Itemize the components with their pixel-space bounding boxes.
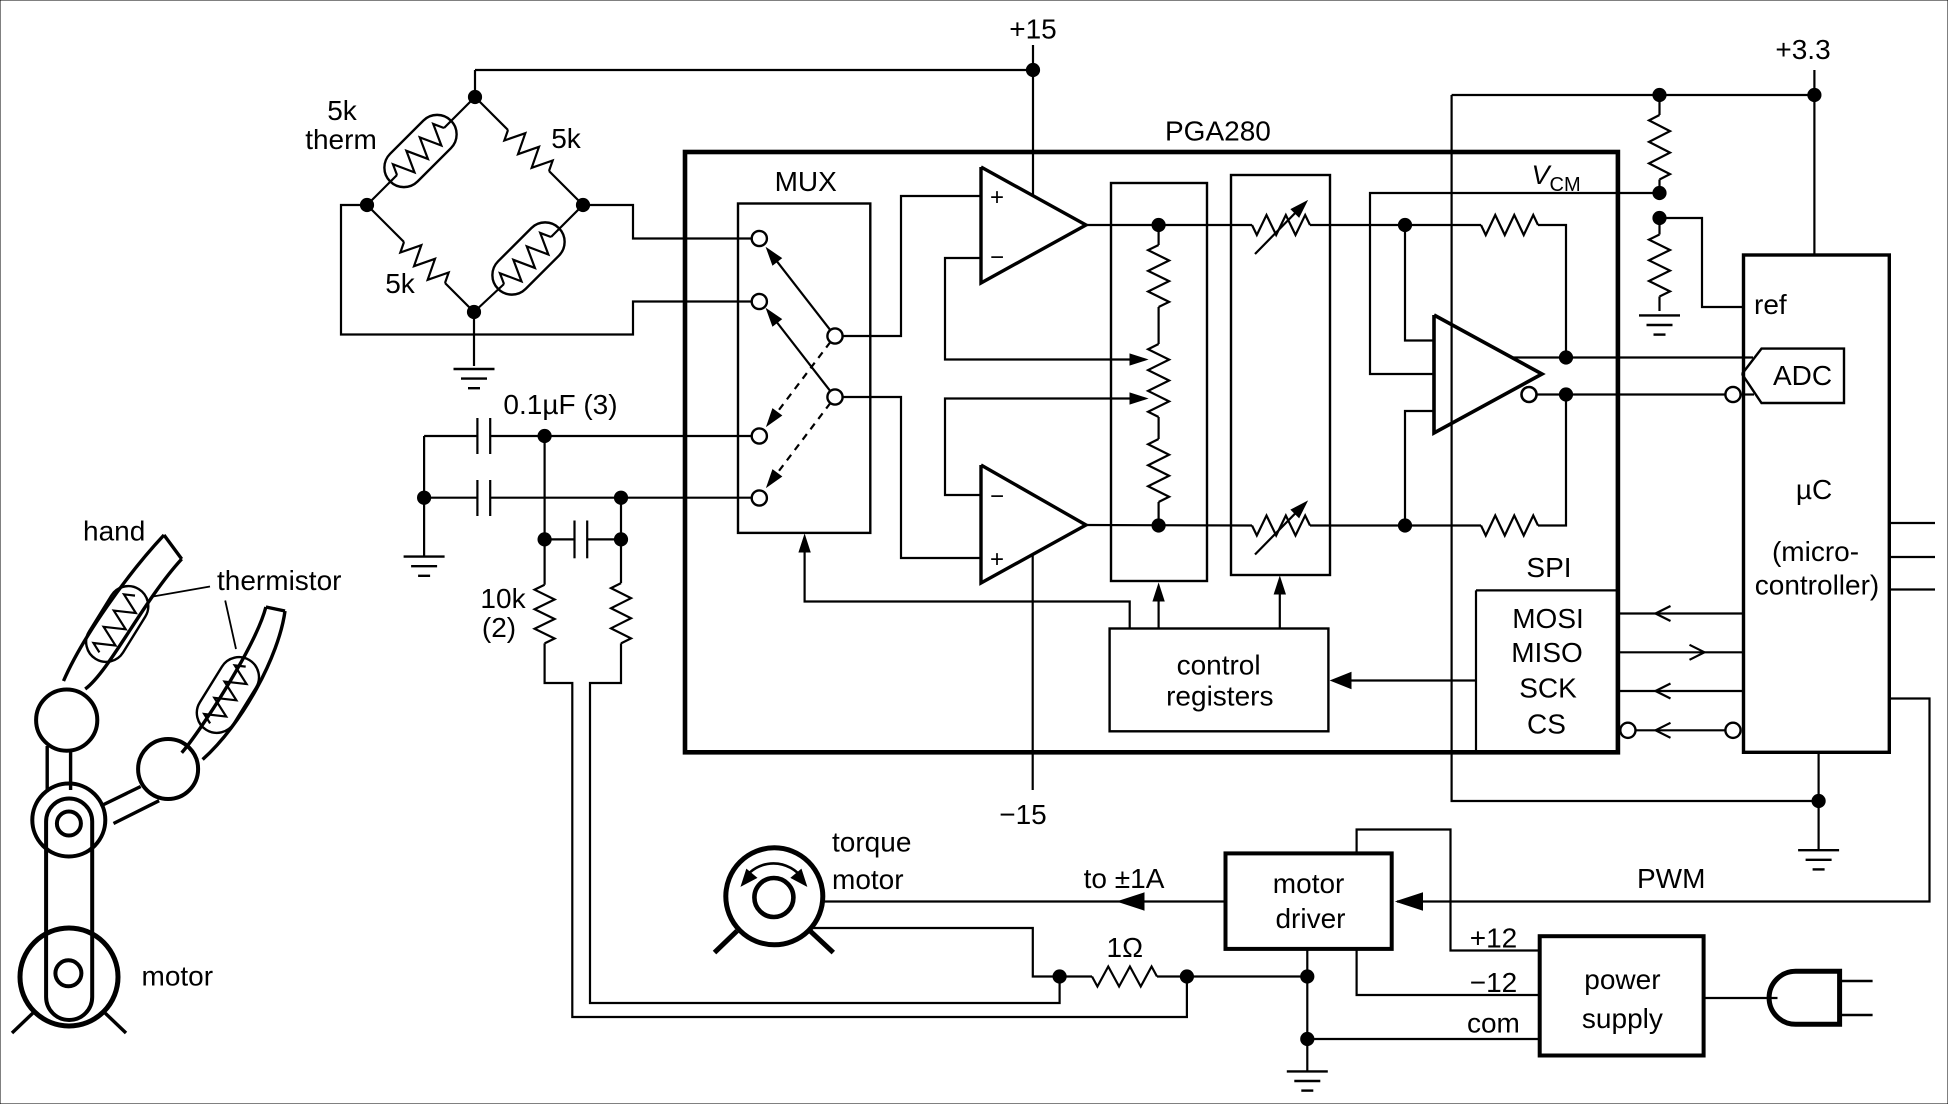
wire uC ground pin bbox=[1817, 752, 1819, 849]
torque motor leg right bbox=[810, 931, 833, 953]
svg-text:to ±1A: to ±1A bbox=[1084, 863, 1165, 894]
junction VR1 output bbox=[1398, 218, 1411, 231]
op-amp A3 output amplifier bbox=[1434, 315, 1542, 433]
hand thermistor 2 element bbox=[204, 665, 246, 723]
svg-text:−12: −12 bbox=[1470, 967, 1518, 998]
AC plug prong 2 bbox=[1840, 1014, 1873, 1016]
feedback resistor R6 bbox=[1405, 395, 1566, 536]
svg-text:+: + bbox=[990, 546, 1004, 573]
label hand bbox=[83, 516, 145, 547]
MUX input terminal 3 bbox=[752, 428, 767, 443]
label motor arm bbox=[142, 961, 214, 992]
hand thermistor 1 element bbox=[93, 594, 135, 652]
gain network box bbox=[1111, 183, 1207, 581]
hand motor leg right bbox=[104, 1012, 126, 1033]
wire A1 output bbox=[1086, 224, 1252, 226]
uC spare pin 1 bbox=[1889, 522, 1935, 524]
wire SCK bbox=[1618, 684, 1744, 699]
label control registers bbox=[1166, 650, 1273, 712]
wire digital supply loop bbox=[1452, 95, 1819, 801]
svg-text:ref: ref bbox=[1754, 289, 1787, 320]
junction C1 output bbox=[538, 429, 551, 442]
svg-text:hand: hand bbox=[83, 516, 145, 547]
wire bridge left to MUX in2 bbox=[341, 205, 752, 335]
label ref pin bbox=[1754, 289, 1787, 320]
gain resistor chain middle bbox=[1148, 307, 1169, 417]
label 1 ohm bbox=[1107, 932, 1144, 963]
junction A2 output bbox=[1152, 519, 1165, 532]
thermistor RT2 5k body bbox=[484, 214, 572, 302]
svg-text:−: − bbox=[990, 244, 1004, 271]
svg-text:driver: driver bbox=[1275, 903, 1345, 934]
resistor R1 5k top-right bbox=[475, 97, 583, 205]
wire CS bbox=[1636, 723, 1726, 738]
ADC input tag bbox=[1742, 349, 1844, 403]
label thermistor bbox=[217, 565, 341, 596]
svg-text:+15: +15 bbox=[1009, 14, 1057, 45]
junction shunt right node bbox=[1301, 970, 1314, 983]
wire A1 inverting feedback bbox=[945, 258, 1147, 365]
junction C2 output bbox=[614, 491, 627, 504]
gain-set arrow into gain box bbox=[1153, 584, 1164, 629]
variable resistor VR1 bbox=[1252, 201, 1405, 254]
AC plug bbox=[1769, 971, 1840, 1024]
svg-text:PGA280: PGA280 bbox=[1165, 116, 1271, 147]
resistor R2 5k bottom-left bbox=[367, 205, 474, 312]
junction com node bbox=[1301, 1032, 1314, 1045]
svg-text:MOSI: MOSI bbox=[1512, 603, 1584, 634]
MUX box bbox=[738, 204, 870, 533]
MUX pole A bbox=[827, 328, 842, 343]
wire +15 rail bbox=[475, 45, 1033, 97]
svg-text:ADC: ADC bbox=[1773, 360, 1832, 391]
wire SPI to control registers bbox=[1331, 673, 1476, 689]
svg-text:supply: supply bbox=[1582, 1003, 1663, 1034]
svg-text:CS: CS bbox=[1527, 708, 1566, 739]
resistor R9 1 ohm bbox=[1066, 967, 1307, 987]
junction shunt left bbox=[1053, 970, 1066, 983]
junction C2 left bbox=[418, 491, 431, 504]
wire +15 into PGA280 to op-amp A1 bbox=[1032, 70, 1034, 196]
attenuator box bbox=[1231, 175, 1330, 575]
svg-text:therm: therm bbox=[305, 124, 377, 155]
label +12 bbox=[1470, 923, 1518, 954]
svg-text:µC: µC bbox=[1796, 474, 1832, 505]
node +3.3 supply label bbox=[1775, 34, 1830, 65]
node bridge bottom bbox=[467, 305, 480, 318]
motor driver box bbox=[1226, 853, 1392, 949]
svg-text:torque: torque bbox=[832, 827, 911, 858]
svg-text:(2): (2) bbox=[482, 612, 516, 643]
junction VR2 output bbox=[1398, 519, 1411, 532]
feedback resistor R5 bbox=[1405, 215, 1566, 358]
ground uC bbox=[1798, 850, 1839, 869]
svg-text:1Ω: 1Ω bbox=[1107, 932, 1144, 963]
leader line thermistor left bbox=[153, 587, 210, 597]
hand elbow circle bbox=[32, 784, 105, 857]
wire motor driver to com node bbox=[1306, 949, 1308, 1071]
svg-text:MUX: MUX bbox=[775, 166, 838, 197]
label microcontroller bbox=[1755, 536, 1879, 601]
SPI box bbox=[1476, 590, 1616, 750]
MUX arm A-1 bbox=[767, 248, 831, 330]
wire bridge bottom to ground bbox=[473, 312, 475, 366]
hand elbow pivot bbox=[57, 812, 81, 836]
hand finger right bbox=[182, 607, 285, 760]
node bridge left bbox=[360, 198, 373, 211]
svg-text:registers: registers bbox=[1166, 681, 1273, 712]
label MUX bbox=[775, 166, 838, 197]
torque motor body bbox=[726, 848, 823, 945]
torque motor leg left bbox=[715, 931, 738, 953]
label ADC bbox=[1773, 360, 1832, 391]
uC spare pin 2 bbox=[1889, 556, 1935, 558]
ground divider bbox=[1639, 315, 1680, 334]
resistor R3 10k bbox=[535, 585, 555, 644]
wire MUX pole A to A1 noninverting bbox=[843, 196, 981, 336]
atten-set arrow into attenuator box bbox=[1274, 577, 1285, 629]
hand joint 2 bbox=[138, 739, 198, 799]
op-amp A1 bbox=[981, 167, 1086, 283]
leader line thermistor right bbox=[225, 601, 236, 650]
label PGA280 bbox=[1165, 116, 1271, 147]
label power supply bbox=[1582, 964, 1663, 1034]
label R1 5k bbox=[551, 123, 582, 154]
capacitor C1 0.1uF bbox=[424, 418, 751, 454]
svg-text:5k: 5k bbox=[327, 95, 358, 126]
svg-text:control: control bbox=[1177, 650, 1261, 681]
wire MOSI bbox=[1618, 606, 1744, 621]
terminal circle CS uC side bbox=[1725, 723, 1740, 738]
ground motor driver bbox=[1287, 1071, 1328, 1090]
wire sense line A upper bbox=[543, 436, 545, 585]
thermistor RT1 5k body bbox=[376, 107, 464, 195]
svg-text:SPI: SPI bbox=[1526, 552, 1571, 583]
capacitor C2 0.1uF bbox=[424, 480, 751, 516]
wire motor drive A bbox=[823, 893, 1226, 910]
hand link joint2-elbow bbox=[100, 787, 159, 824]
wire A2 inverting feedback bbox=[945, 393, 1147, 495]
control registers box bbox=[1110, 629, 1329, 732]
label MOSI bbox=[1512, 603, 1584, 634]
label 0.1uF (3) bbox=[503, 389, 617, 420]
junction A3 out bottom bbox=[1559, 388, 1572, 401]
junction +3.3 at uC bbox=[1808, 88, 1821, 101]
wire VR1 to A3 input bbox=[1405, 225, 1434, 341]
net VCM wire bbox=[1370, 193, 1660, 374]
wire VR2 to A3 input bbox=[1405, 411, 1434, 526]
label SCK bbox=[1519, 672, 1577, 703]
hand motor leg left bbox=[12, 1012, 34, 1033]
svg-text:MISO: MISO bbox=[1511, 637, 1583, 668]
svg-text:thermistor: thermistor bbox=[217, 565, 341, 596]
ground bridge bbox=[454, 369, 495, 388]
junction C3 left bbox=[538, 533, 551, 546]
svg-text:5k: 5k bbox=[385, 268, 416, 299]
svg-text:+12: +12 bbox=[1470, 923, 1518, 954]
resistor R7 divider upper bbox=[1649, 95, 1670, 193]
resistor R4 10k bbox=[611, 583, 631, 643]
wire sense line B upper bbox=[620, 498, 622, 583]
wire power supply to plug bbox=[1704, 997, 1778, 999]
hand thermistor 2 body bbox=[189, 650, 266, 741]
wire A3 output negative bbox=[1537, 393, 1726, 395]
microcontroller U1 box bbox=[1744, 255, 1890, 752]
wire MUX pole B to A2 noninverting bbox=[843, 397, 981, 558]
hand arm link bbox=[46, 799, 92, 1021]
label com bbox=[1467, 1008, 1520, 1039]
wire +3.3 rail bbox=[1452, 70, 1815, 255]
MUX arm B-2 bbox=[767, 309, 831, 391]
junction +3.3 at divider bbox=[1653, 88, 1666, 101]
MUX arm B-4 selected bbox=[767, 403, 831, 487]
node bridge top bbox=[468, 90, 481, 103]
junction C3 right bbox=[614, 533, 627, 546]
svg-text:0.1µF (3): 0.1µF (3) bbox=[503, 389, 617, 420]
junction shunt right bbox=[1180, 970, 1193, 983]
wire sense line B to shunt bbox=[590, 643, 1060, 1003]
svg-text:motor: motor bbox=[142, 961, 214, 992]
svg-text:+: + bbox=[990, 184, 1004, 211]
wire caps common to ground bbox=[423, 436, 425, 556]
wire bubble to ADC bbox=[1741, 393, 1754, 395]
wire motor drive B bbox=[812, 928, 1053, 977]
node +15 supply label bbox=[1009, 14, 1057, 45]
PGA280 box bbox=[685, 152, 1618, 752]
AC plug prong 1 bbox=[1840, 980, 1873, 982]
svg-text:motor: motor bbox=[832, 864, 904, 895]
hand finger left bbox=[64, 535, 182, 689]
svg-text:PWM: PWM bbox=[1637, 863, 1705, 894]
torque motor rotation arrow bbox=[741, 863, 806, 885]
wire sense line A to shunt bbox=[545, 643, 1187, 1017]
svg-text:power: power bbox=[1584, 964, 1660, 995]
resistor R8 divider lower bbox=[1649, 218, 1670, 311]
junction A3 out top bbox=[1559, 351, 1572, 364]
hand link joint1-elbow bbox=[47, 746, 70, 792]
wire A3 output positive bbox=[1512, 356, 1753, 358]
gain resistor chain lower bbox=[1148, 417, 1169, 525]
wire bridge right to MUX in1 bbox=[583, 205, 752, 239]
hand motor circle bbox=[20, 928, 118, 1026]
label 5k therm bbox=[305, 95, 377, 155]
thermistor RT2 5k element bbox=[474, 205, 583, 312]
wire PWM bbox=[1397, 699, 1930, 911]
hand motor pivot bbox=[55, 960, 81, 986]
wire com bbox=[1307, 1038, 1539, 1040]
ground input caps bbox=[404, 557, 445, 576]
capacitor C3 0.1uF bbox=[545, 521, 621, 559]
label 10k (2) bbox=[480, 583, 526, 643]
torque motor hub bbox=[754, 878, 793, 917]
junction ref tap bbox=[1653, 211, 1666, 224]
op-amp A2 bbox=[981, 465, 1086, 583]
svg-text:com: com bbox=[1467, 1008, 1520, 1039]
hand joint 1 bbox=[36, 690, 97, 751]
label to 1A bbox=[1084, 863, 1165, 894]
svg-text:5k: 5k bbox=[551, 123, 582, 154]
node bridge right bbox=[576, 198, 589, 211]
svg-text:SCK: SCK bbox=[1519, 672, 1577, 703]
wire A2 output bbox=[1086, 524, 1252, 527]
terminal circle ADC input bbox=[1725, 387, 1740, 402]
svg-text:10k: 10k bbox=[480, 583, 526, 614]
inversion bubble A3 bbox=[1522, 387, 1537, 402]
MUX arm A-3 selected bbox=[767, 342, 831, 426]
variable resistor VR2 bbox=[1252, 502, 1405, 555]
label -12 bbox=[1470, 967, 1518, 998]
hand thermistor 1 body bbox=[79, 579, 156, 670]
wire -12 bbox=[1357, 949, 1540, 995]
MUX gain-select arrow bbox=[799, 535, 1130, 629]
label VCM bbox=[1532, 160, 1581, 196]
wire -15 from A2 bbox=[1032, 554, 1034, 790]
label uC bbox=[1796, 474, 1832, 505]
label R2 5k bbox=[385, 268, 416, 299]
label motor driver bbox=[1273, 868, 1346, 934]
label PWM bbox=[1637, 863, 1705, 894]
label MISO bbox=[1511, 637, 1583, 668]
uC spare pin 3 bbox=[1889, 588, 1935, 590]
MUX pole B bbox=[827, 389, 842, 404]
svg-text:−: − bbox=[990, 483, 1004, 510]
wire MISO bbox=[1618, 645, 1744, 660]
svg-text:+3.3: +3.3 bbox=[1775, 34, 1830, 65]
gain resistor chain upper bbox=[1148, 225, 1169, 307]
svg-text:−15: −15 bbox=[999, 799, 1047, 830]
svg-text:controller): controller) bbox=[1755, 570, 1879, 601]
MUX input terminal 4 bbox=[752, 490, 767, 505]
label torque motor bbox=[832, 827, 911, 896]
MUX input terminal 2 bbox=[752, 294, 767, 309]
junction VCM tap bbox=[1653, 186, 1666, 199]
junction uC ground bbox=[1812, 794, 1825, 807]
svg-text:(micro-: (micro- bbox=[1772, 536, 1859, 567]
label -15 bbox=[999, 799, 1047, 830]
label CS bbox=[1527, 708, 1566, 739]
junction A1 output bbox=[1152, 218, 1165, 231]
wire ref to uC bbox=[1660, 218, 1744, 307]
terminal circle CS pga side bbox=[1620, 723, 1635, 738]
thermistor RT1 5k element bbox=[367, 97, 475, 205]
label SPI bbox=[1526, 552, 1571, 583]
MUX input terminal 1 bbox=[752, 231, 767, 246]
junction +15 bbox=[1026, 63, 1039, 76]
wire +12 bbox=[1357, 830, 1540, 951]
svg-text:motor: motor bbox=[1273, 868, 1345, 899]
power supply box bbox=[1540, 936, 1704, 1055]
